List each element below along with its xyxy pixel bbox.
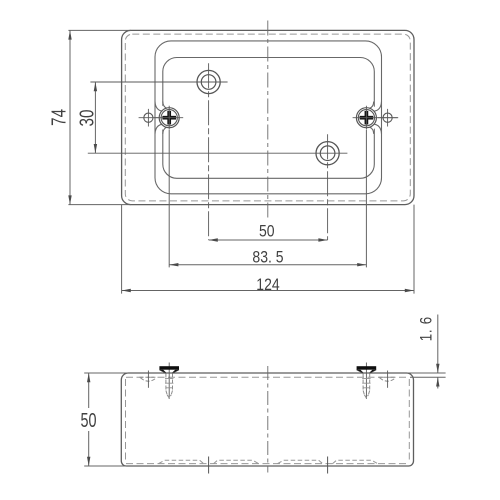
dim 50 arrows xyxy=(209,238,328,241)
hidden bottom inner line xyxy=(126,463,409,465)
left pilot centerline xyxy=(147,371,149,388)
dim 30 line xyxy=(94,82,96,153)
hole H2 outer circle xyxy=(316,142,339,165)
flange outline xyxy=(155,41,382,194)
right screw (side): centerline xyxy=(365,363,367,400)
right screw boss circle xyxy=(356,108,376,128)
hidden lid underside line xyxy=(126,376,409,378)
dim 124 arrows xyxy=(122,289,414,292)
dim 83.5 line and screw extension lines xyxy=(169,130,366,267)
svg-text:83. 5: 83. 5 xyxy=(252,249,283,267)
svg-text:30: 30 xyxy=(76,109,99,126)
svg-text:50: 50 xyxy=(80,409,96,432)
left screw (side): centerline xyxy=(168,363,170,400)
box wall inner hidden line (dashed) xyxy=(125,34,410,201)
left boss connector curves xyxy=(155,102,167,134)
dim 1.6 line upper segment xyxy=(437,315,439,374)
dim 1.6 line lower segment xyxy=(437,377,439,388)
right pilot hole crosshair xyxy=(378,109,398,127)
svg-text:1. 6: 1. 6 xyxy=(417,316,436,341)
left pilot countersink hidden dish xyxy=(139,377,157,381)
hole H2 inner circle xyxy=(320,146,335,161)
dim 1.6 arrow up xyxy=(436,377,439,386)
hidden wall inner line left xyxy=(125,379,127,460)
dim 83.5 arrows xyxy=(169,263,366,266)
left screw boss blank xyxy=(156,104,183,131)
opening outline xyxy=(163,58,374,179)
box outline (side view) xyxy=(121,373,413,466)
right boss connector curves xyxy=(370,102,382,134)
side view vertical center chain line xyxy=(267,366,269,473)
hole H1 outer circle xyxy=(197,70,220,93)
hole H1 horizontal centerline / ext line of dim 30 xyxy=(90,81,227,83)
right pilot hole circle xyxy=(383,113,392,122)
knockout bump hidden lines (right hole) xyxy=(278,460,378,463)
right screw boss blank xyxy=(353,104,380,131)
left screw shank hidden xyxy=(166,374,173,399)
dim 74 line xyxy=(68,30,131,204)
left screw head circle xyxy=(161,110,177,126)
hidden wall inner line right xyxy=(408,379,410,460)
dim 1.6 ext lines xyxy=(407,373,446,377)
dim 74 arrows xyxy=(68,30,71,204)
left screw boss circle xyxy=(159,108,179,128)
svg-text:74: 74 xyxy=(48,109,71,126)
knockout centerline tick H1 xyxy=(208,457,210,474)
right screw head xyxy=(357,366,377,370)
svg-text:124: 124 xyxy=(256,276,280,294)
knockout bump hidden lines (left hole) xyxy=(159,460,259,463)
knockout centerline tick H2 xyxy=(327,457,329,474)
dim 30 arrows xyxy=(94,82,97,153)
left screw phillips cross xyxy=(162,111,176,125)
box outer outline (top view) xyxy=(122,30,414,204)
left screw thread dashes xyxy=(165,379,173,388)
dim 50 line xyxy=(209,239,328,241)
dim 50 (side) line segments xyxy=(88,373,90,466)
dim 1.6 arrow down xyxy=(436,364,439,373)
hole H2 horizontal centerline / ext line of dim 30 xyxy=(88,152,348,154)
right screw shank hidden xyxy=(363,374,370,399)
hole H1 vertical centerline down to dim 50 xyxy=(208,63,210,240)
top view vertical center chain line xyxy=(267,21,269,219)
left pilot hole circle xyxy=(144,113,153,122)
right screw phillips cross xyxy=(360,111,374,125)
svg-text:50: 50 xyxy=(259,222,275,240)
hole H2 vertical centerline down to dim 50 xyxy=(327,134,329,240)
left pilot hole crosshair xyxy=(139,109,159,127)
hole H1 inner circle xyxy=(201,75,216,90)
right screw head circle xyxy=(358,110,374,126)
right screw thread dashes xyxy=(362,379,370,388)
right pilot countersink hidden dish xyxy=(379,377,397,381)
dim 50 (side) ext lines xyxy=(84,373,128,466)
left screw crosshair xyxy=(154,106,183,130)
dim 124 line and box corner extension lines xyxy=(122,205,414,294)
right screw crosshair xyxy=(353,106,399,130)
right pilot centerline xyxy=(387,371,389,388)
dim 50 (side) arrows xyxy=(87,373,90,466)
left screw head xyxy=(159,366,179,370)
